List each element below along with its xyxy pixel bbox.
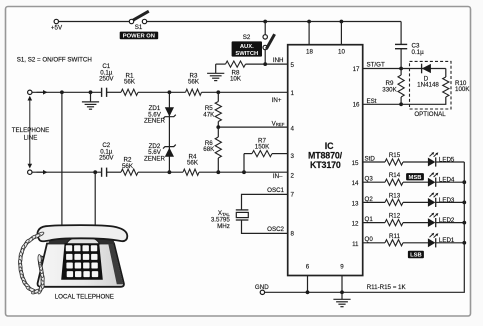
resistor R12	[385, 220, 403, 226]
svg-text:9: 9	[340, 263, 344, 270]
resistor R14	[385, 179, 403, 185]
resistor R6	[215, 137, 221, 158]
svg-text:KT3170: KT3170	[310, 160, 341, 170]
svg-text:OSC1: OSC1	[267, 187, 284, 194]
svg-text:100K: 100K	[455, 86, 470, 93]
ground main	[341, 292, 343, 299]
svg-text:56K: 56K	[187, 159, 199, 166]
wire R7 to pin 3	[272, 153, 288, 155]
LED LED5	[428, 158, 436, 167]
LED LED2	[428, 218, 436, 227]
switch S2	[263, 35, 267, 39]
svg-text:7: 7	[291, 192, 295, 199]
wire R7 left stub	[244, 153, 252, 155]
ground near C1	[90, 92, 92, 102]
svg-text:ZENER: ZENER	[144, 118, 166, 125]
node telephone line arrows	[29, 100, 31, 164]
svg-text:5: 5	[291, 62, 295, 69]
capacitor C3	[400, 22, 402, 45]
node telephone terminal top	[28, 90, 32, 94]
svg-text:R14: R14	[389, 172, 401, 179]
wire OSC1	[242, 194, 288, 210]
junction phone wire 2	[93, 170, 97, 174]
capacitor C2	[101, 168, 103, 177]
wire phone lead 1	[61, 92, 63, 226]
junction pin6-gnd	[306, 290, 310, 294]
svg-text:250V: 250V	[99, 76, 114, 83]
junction pin9-gnd	[340, 290, 344, 294]
svg-text:Q3: Q3	[365, 176, 374, 183]
svg-text:ST/GT: ST/GT	[367, 61, 385, 68]
svg-text:15: 15	[352, 160, 359, 167]
svg-text:3: 3	[291, 153, 295, 160]
wire R6 top stub	[217, 127, 219, 137]
junction ZD1 top	[168, 90, 172, 94]
svg-text:GND: GND	[255, 284, 269, 291]
LED LED4	[428, 178, 436, 187]
svg-text:R11: R11	[389, 233, 400, 240]
zener ZD1	[165, 107, 174, 116]
junction rail-S2	[263, 20, 267, 24]
phone cord coil	[18, 231, 45, 295]
wire ESt	[363, 103, 401, 105]
svg-text:17: 17	[353, 66, 360, 73]
wire R5 top stub	[217, 92, 219, 101]
svg-text:VREF: VREF	[272, 120, 285, 127]
wire IN+ segment 3	[138, 91, 186, 93]
resistor R9	[400, 69, 402, 76]
svg-text:INH: INH	[273, 57, 284, 64]
svg-text:6: 6	[306, 263, 310, 270]
node telephone terminal bottom	[28, 170, 32, 174]
svg-text:+5V: +5V	[51, 25, 63, 32]
svg-text:68K: 68K	[203, 146, 215, 153]
svg-text:R12: R12	[389, 213, 401, 220]
wire zener branch	[168, 92, 170, 172]
wire pin 18 stub	[308, 22, 310, 45]
junction R5 top	[216, 90, 220, 94]
svg-text:10: 10	[338, 49, 345, 56]
resistor R3	[186, 89, 202, 95]
node GND terminal	[260, 290, 264, 294]
svg-text:12: 12	[352, 221, 359, 228]
svg-text:MT8870/: MT8870/	[308, 151, 343, 161]
wire INH right	[246, 63, 288, 65]
svg-text:OSC2: OSC2	[267, 226, 284, 233]
svg-text:IC: IC	[325, 141, 334, 151]
wire pin 6 stub	[307, 276, 309, 293]
wire pin 9 stub	[341, 276, 343, 293]
junction R6 bottom	[216, 170, 220, 174]
junction R7 drop	[242, 170, 246, 174]
LED LED1	[428, 238, 436, 247]
svg-text:0.1µ: 0.1µ	[412, 49, 425, 56]
junction phone wire 1	[60, 90, 64, 94]
node +5V terminal	[54, 19, 58, 23]
wire R7 drop	[243, 154, 245, 173]
svg-text:R15: R15	[389, 152, 401, 159]
junction bus LED3	[462, 201, 466, 205]
wire R5 bottom stub	[217, 122, 219, 128]
resistor R8	[226, 61, 246, 67]
optional dashed box	[410, 61, 452, 109]
wire R15 to LED5	[403, 161, 428, 163]
wire IN- segment 3	[138, 171, 183, 173]
svg-text:16: 16	[353, 102, 360, 109]
resistor R15	[385, 159, 403, 165]
wire IN- segment 2	[107, 171, 121, 173]
wire Q2 row	[363, 201, 385, 203]
svg-text:OPTIONAL: OPTIONAL	[414, 111, 446, 118]
svg-text:14: 14	[352, 180, 359, 187]
crystal X1 3.5795MHz	[236, 209, 249, 211]
wire IN+ segment 2	[107, 91, 121, 93]
junction rail-pin18	[307, 20, 311, 24]
wire +5V rail left	[59, 21, 130, 23]
svg-text:13: 13	[352, 200, 359, 207]
wire IN- segment 4	[199, 171, 288, 173]
svg-text:10K: 10K	[230, 75, 242, 82]
svg-text:R13: R13	[389, 192, 401, 199]
label MSB	[406, 173, 424, 180]
wire StD row	[363, 161, 385, 163]
svg-text:2: 2	[291, 172, 295, 179]
capacitor C1	[101, 88, 103, 97]
svg-text:ESt: ESt	[367, 98, 377, 105]
junction S2-INH	[263, 62, 267, 66]
svg-text:47K: 47K	[203, 111, 215, 118]
resistor R7	[252, 151, 272, 157]
svg-text:Q2: Q2	[365, 196, 374, 203]
junction bus LED1	[462, 241, 466, 245]
LED LED3	[428, 198, 436, 207]
svg-text:150K: 150K	[255, 144, 270, 151]
wire phone lead 2	[94, 172, 96, 226]
svg-text:LINE: LINE	[24, 134, 38, 141]
svg-text:4: 4	[291, 126, 295, 133]
junction ZD2 bottom	[168, 170, 172, 174]
wire OSC2	[242, 220, 288, 233]
wire R6 bottom stub	[217, 158, 219, 172]
wire S2 to INH	[264, 50, 266, 64]
svg-text:S1: S1	[135, 24, 143, 31]
wire VREF	[218, 126, 287, 128]
svg-text:56K: 56K	[124, 78, 136, 85]
wire IN+ segment 4	[202, 91, 288, 93]
svg-text:56K: 56K	[122, 163, 134, 170]
svg-text:Q0: Q0	[365, 236, 374, 243]
svg-text:AUX.: AUX.	[240, 44, 254, 50]
svg-text:LOCAL TELEPHONE: LOCAL TELEPHONE	[55, 293, 114, 300]
label POWER ON	[120, 32, 159, 40]
wire LED4 to bus	[436, 181, 465, 183]
svg-text:SWITCH: SWITCH	[235, 51, 258, 57]
wire pin 10 stub	[340, 22, 342, 45]
resistor R1	[121, 89, 138, 95]
resistor R5	[215, 102, 221, 122]
svg-text:8: 8	[291, 231, 295, 238]
resistor R2	[121, 169, 138, 175]
svg-text:MHz: MHz	[217, 223, 230, 230]
wire IN- segment 1	[32, 171, 101, 173]
wire R11 to LED1	[403, 242, 428, 244]
wire Q0 row	[363, 242, 385, 244]
switch S1	[129, 19, 133, 23]
resistor R11	[385, 240, 403, 246]
wire LED bus	[263, 162, 465, 292]
svg-text:56K: 56K	[188, 78, 200, 85]
resistor R10	[445, 69, 447, 78]
wire R12 to LED2	[403, 222, 428, 224]
svg-text:330K: 330K	[382, 86, 397, 93]
wire ST/GT	[363, 68, 401, 70]
wire LED5 to bus	[436, 161, 465, 163]
label LSB	[408, 251, 424, 259]
svg-text:S1, S2 = ON/OFF SWITCH: S1, S2 = ON/OFF SWITCH	[17, 57, 92, 64]
junction bus LED4	[462, 180, 466, 184]
ground under R8	[215, 64, 217, 73]
wire +5V rail right	[147, 21, 402, 23]
svg-text:StD: StD	[365, 155, 376, 162]
wire rail to S2	[264, 22, 266, 35]
junction ground branch	[89, 90, 93, 94]
wire LED2 to bus	[436, 222, 465, 224]
svg-text:1: 1	[291, 90, 295, 97]
svg-text:18: 18	[306, 49, 313, 56]
wire INH left	[216, 63, 226, 65]
svg-text:11: 11	[352, 241, 359, 248]
wire R14 to LED4	[403, 181, 428, 183]
wire R13 to LED3	[403, 201, 428, 203]
svg-text:Q1: Q1	[365, 216, 374, 223]
svg-text:IN–: IN–	[273, 173, 283, 180]
wire LED3 to bus	[436, 201, 465, 203]
junction rail-pin10	[340, 20, 344, 24]
svg-text:MSB: MSB	[409, 175, 422, 181]
wire IN+ segment 1	[32, 91, 101, 93]
resistor R4	[183, 169, 199, 175]
resistor R13	[385, 199, 403, 205]
junction VREF	[216, 125, 220, 129]
junction ST/GT	[399, 67, 403, 71]
svg-text:S2: S2	[243, 34, 251, 41]
svg-text:R11-R15 = 1K: R11-R15 = 1K	[367, 284, 407, 291]
wire Q1 row	[363, 222, 385, 224]
svg-text:IN+: IN+	[272, 97, 282, 104]
svg-text:ZENER: ZENER	[144, 155, 166, 162]
wire LED1 to bus	[436, 242, 465, 244]
diode D 1N4148	[401, 68, 446, 70]
zener ZD2	[163, 145, 176, 149]
junction ESt	[399, 102, 403, 106]
junction bus LED2	[462, 221, 466, 225]
svg-text:TELEPHONE: TELEPHONE	[12, 127, 49, 134]
svg-text:LSB: LSB	[410, 253, 422, 259]
svg-text:1N4148: 1N4148	[417, 82, 439, 89]
svg-text:250V: 250V	[99, 155, 114, 162]
op-amp IC U1 MT8870/KT3170 box	[288, 45, 363, 276]
svg-text:POWER ON: POWER ON	[123, 34, 155, 40]
label AUX. SWITCH	[232, 41, 262, 56]
wire Q3 row	[363, 181, 385, 183]
